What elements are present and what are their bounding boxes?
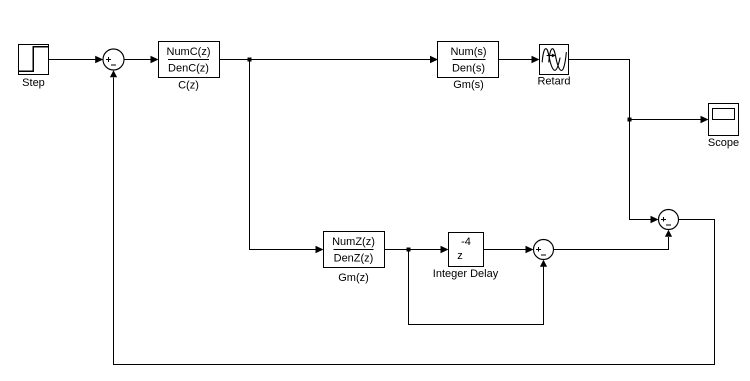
wire Gm(s) to Retard [499,56,540,63]
wire Retard to Sum3 [569,60,659,224]
block Gm(s) transfer function [438,42,499,78]
wire Integer Delay to Sum2 [484,246,534,253]
svg-text:z: z [457,250,463,262]
wire Sum2 to Sum3 bottom [554,230,673,250]
wire feedback Gm(z) output down around to Sum2 bottom [409,250,548,325]
wire branch to Scope [630,116,709,123]
wire Step to Sum1 [49,56,104,63]
block Gm(z) transfer function [324,232,385,268]
wire C(z) to Gm(s) [220,56,439,63]
block Step [19,45,49,75]
svg-text:Den(s): Den(s) [452,63,485,75]
svg-text:DenZ(z): DenZ(z) [334,253,374,265]
svg-text:NumZ(z): NumZ(z) [332,236,375,248]
svg-text:C(z): C(z) [178,80,199,92]
wire outer feedback Sum3 output to Sum1 bottom [110,70,715,364]
wire Gm(z) to Integer Delay [385,246,449,253]
sum S1 [103,49,124,70]
block Retard transport delay [540,45,569,75]
sum S2 [534,240,554,260]
svg-text:Step: Step [22,77,45,89]
node branch junction after C(z) [248,58,252,62]
svg-text:Gm(s): Gm(s) [453,79,484,91]
wire Sum1 to C(z) [124,56,159,63]
svg-text:NumC(z): NumC(z) [167,46,211,58]
svg-text:Scope: Scope [708,137,739,149]
block C(z) transfer function [159,42,220,78]
svg-text:Integer Delay: Integer Delay [433,268,499,280]
block Integer Delay z^-4 [449,233,484,267]
svg-text:Gm(z): Gm(z) [338,272,369,284]
svg-text:Num(s): Num(s) [450,46,486,58]
sum S3 [659,210,679,230]
wire branch down from C(z) output to Gm(z) [250,60,324,254]
node branch junction on Retard output line [628,118,632,122]
svg-text:Retard: Retard [537,76,570,88]
block Scope [709,104,739,136]
svg-text:DenC(z): DenC(z) [168,63,209,75]
svg-text:-4: -4 [461,236,471,248]
node branch junction after Gm(z) [407,248,411,252]
